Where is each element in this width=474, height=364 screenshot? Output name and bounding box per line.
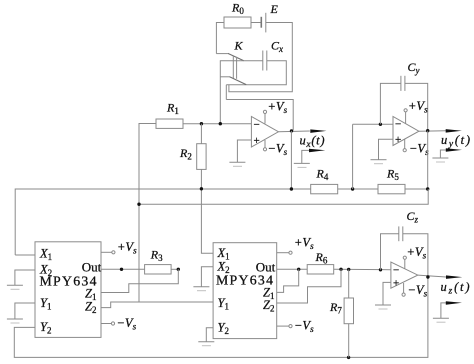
node R7 top	[347, 268, 350, 271]
op-amp U2	[393, 117, 419, 146]
switch K bottom blade	[229, 77, 246, 85]
node U2 input feed on rail1	[351, 187, 354, 190]
ground at U2 plus input	[371, 159, 387, 161]
wire MPY1 Y1 to ground	[15, 303, 35, 319]
capacitor Cz	[398, 226, 400, 241]
wire MPY1 -Vs pin	[101, 323, 111, 325]
node at R2 top	[200, 122, 203, 125]
svg-text:Out: Out	[82, 260, 102, 275]
op-amp U5 plus input wire	[383, 282, 391, 304]
svg-text:E: E	[270, 2, 279, 16]
rail 1 with R4 R5	[15, 189, 311, 255]
wire R4 to R5	[338, 188, 378, 190]
ground at U5 plus input	[375, 304, 391, 306]
ground at MPY1 X2	[7, 284, 23, 286]
wire R7 top lead	[348, 269, 350, 298]
wire R1 to op-amp U1 minus input	[183, 123, 251, 125]
node at Cx feed	[219, 122, 222, 125]
node Cz tap	[379, 268, 382, 271]
resistor R4	[311, 184, 338, 193]
capacitor Cy right lead	[405, 83, 428, 130]
wire R7 bottom lead	[348, 324, 350, 358]
wire Cx right lead down to inner loop	[226, 61, 286, 85]
node Cy tap	[379, 123, 382, 126]
arrow uz ground reference	[441, 303, 446, 318]
svg-text:+: +	[393, 278, 399, 290]
wire R1 left lead and long feed down to MPY1 out wire	[139, 124, 156, 303]
ground at MPY1 Y1	[7, 318, 23, 320]
ground at MPY2 X2	[193, 286, 209, 288]
wire MPY1 Z1 feedback to R3 node	[101, 269, 178, 292]
capacitor Cy	[400, 76, 402, 91]
op-amp U1 -Vs pin	[264, 140, 266, 148]
resistor R5	[378, 184, 405, 193]
ground at U1 plus input	[229, 161, 245, 163]
wire MPY1 Out	[101, 268, 145, 270]
switch K top pole stub	[216, 53, 228, 55]
op-amp U2 +Vs pin	[405, 112, 407, 124]
capacitor Cx	[262, 51, 264, 71]
svg-text:−: −	[254, 119, 260, 131]
svg-text:+: +	[395, 134, 401, 146]
wire R0 to battery	[251, 22, 261, 24]
resistor R1	[156, 119, 183, 128]
svg-text:+: +	[254, 135, 260, 147]
op-amp U5 -Vs pin	[403, 283, 405, 293]
wire MPY2 Y2 to ground	[206, 328, 213, 342]
rail 2 uy distribution	[139, 189, 428, 204]
wire MPY2 X2 to ground	[201, 267, 213, 287]
wire MPY2 -Vs pin	[277, 325, 289, 327]
wire rail1 up to U2 minus input	[352, 124, 354, 189]
resistor R0	[224, 17, 251, 28]
wire MPY2 Out	[277, 268, 308, 270]
wire U5 output	[418, 275, 446, 277]
switch K bottom pole stub	[220, 76, 229, 78]
capacitor Cz feedback left lead	[381, 234, 399, 270]
node rail2 left end	[137, 203, 140, 206]
resistor R7	[344, 298, 353, 324]
node MPY1 out	[120, 268, 123, 271]
wire R5 right lead	[405, 188, 428, 190]
capacitor Cy feedback left lead	[380, 83, 401, 124]
arrow uy measurement	[446, 129, 462, 133]
resistor R3	[145, 265, 172, 274]
node U2 output	[426, 129, 429, 132]
node R5 right on rail1	[426, 187, 429, 190]
svg-text:K: K	[234, 39, 244, 53]
op-amp U2 plus input wire	[379, 139, 394, 159]
wire U1 output	[278, 130, 309, 133]
resistor R6	[307, 265, 334, 274]
wire R0 left lead	[216, 23, 224, 54]
node MPY2 out	[297, 268, 300, 271]
multiplier U4 MPY634 box	[213, 243, 277, 339]
node U1 output	[290, 129, 293, 132]
ground at uz reference	[433, 317, 449, 319]
arrow ux measurement	[310, 129, 326, 133]
op-amp U2 input wire	[353, 123, 393, 125]
switch K link	[232, 56, 234, 78]
op-amp U1 plus input wire	[237, 140, 251, 162]
wire E to outer loop right	[229, 23, 292, 92]
wire U2 output down to R5 right node	[427, 131, 429, 189]
ground at MPY2 Y2	[198, 341, 214, 343]
wire MPY2 +Vs pin	[277, 252, 289, 254]
node R6 right Z2 tap	[339, 268, 342, 271]
battery E	[260, 17, 262, 28]
node U5 output	[426, 275, 429, 278]
ground at ux reference	[294, 162, 310, 164]
multiplier U3 MPY634 box	[35, 242, 101, 338]
wire MPY1 +Vs pin	[101, 251, 112, 253]
wire MPY2 Z2 to R6 right node	[277, 269, 341, 303]
wire inner loop to output connector	[225, 85, 227, 100]
wire MPY1 X1 input from rail1	[15, 254, 35, 256]
svg-text:−: −	[393, 265, 399, 277]
node R3 right	[177, 268, 180, 271]
wire Cx left lead / node A feed	[220, 61, 262, 124]
wire top block to op-amp U1 output	[226, 100, 293, 131]
wire R6 right to op-amp U5	[334, 268, 391, 270]
node R7 bottom on rail	[347, 356, 350, 359]
wire R2 bottom lead down to MPY2 X1	[201, 169, 213, 253]
op-amp U1	[251, 117, 278, 148]
op-amp U2 -Vs pin	[404, 139, 406, 149]
capacitor Cz right lead	[403, 234, 428, 277]
switch K top blade	[228, 53, 244, 60]
op-amp U1 +Vs pin	[264, 113, 266, 123]
wire U2 output	[419, 130, 446, 133]
arrow ux ground reference	[302, 150, 310, 163]
arrow uy ground reference	[440, 150, 446, 158]
wire MPY1 Y2 to bottom rail	[14, 277, 428, 357]
node ux on rail1	[290, 187, 293, 190]
wire R2 top lead	[200, 124, 202, 144]
node R2 bottom on rail1	[200, 187, 203, 190]
arrow uz measurement	[446, 275, 462, 279]
svg-text:−: −	[395, 119, 401, 131]
svg-text:Out: Out	[256, 259, 276, 274]
op-amp U5 +Vs pin	[404, 259, 406, 268]
wire R3 right lead	[171, 268, 178, 270]
wire U1 output down to rail	[290, 131, 292, 189]
wire MPY1 Z2 to MPY2 Y1	[101, 302, 213, 308]
resistor R2	[197, 144, 206, 170]
wire MPY2 Z1 feedback staircase	[277, 269, 299, 292]
ground at uy reference	[432, 157, 448, 159]
wire MPY1 X2 to ground	[15, 270, 35, 285]
op-amp U5	[391, 262, 418, 288]
